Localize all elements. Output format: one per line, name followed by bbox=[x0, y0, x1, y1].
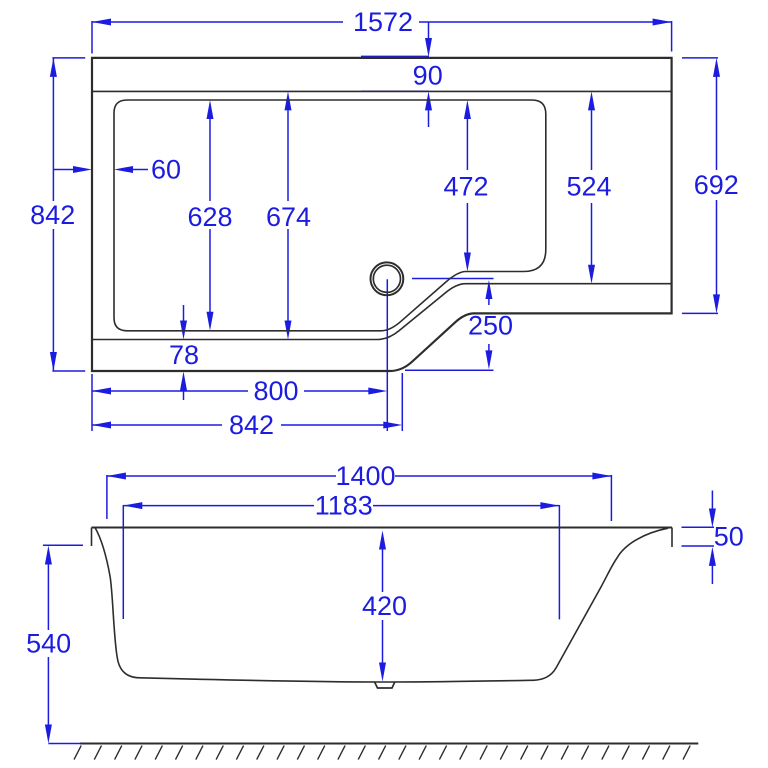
svg-text:692: 692 bbox=[694, 170, 739, 200]
svg-text:842: 842 bbox=[229, 410, 274, 440]
svg-text:90: 90 bbox=[413, 61, 443, 91]
ground hatching bbox=[74, 746, 690, 760]
dimension 90 (top rim width) bbox=[361, 22, 443, 127]
dimension 78 (bottom rim width) bbox=[169, 305, 199, 400]
plan view: outer edge of bath bbox=[92, 58, 672, 371]
svg-text:524: 524 bbox=[566, 172, 611, 202]
plan view: rim bottom / step line bbox=[92, 284, 672, 340]
dimension 628 (basin inner height) bbox=[187, 100, 232, 331]
drain waste circle bbox=[371, 262, 404, 295]
plan view: rim top line bbox=[92, 90, 672, 92]
dimension 842 (left overall height) bbox=[30, 58, 85, 371]
svg-text:472: 472 bbox=[443, 172, 488, 202]
dimension 674 (rim inner height) bbox=[266, 91, 311, 339]
side view: rim top line bbox=[92, 527, 673, 529]
svg-text:250: 250 bbox=[468, 311, 513, 341]
svg-text:420: 420 bbox=[362, 591, 407, 621]
dimension 1183 (side view inner width) bbox=[123, 491, 559, 620]
plan view: inner basin outline bbox=[114, 100, 546, 331]
dimension 472 (shower basin height) bbox=[443, 100, 488, 272]
side view: tub profile bbox=[95, 528, 668, 683]
dimension 50 (rim edge depth) bbox=[682, 491, 744, 585]
dimension 842 (bottom width to step) bbox=[92, 279, 402, 440]
dimension 1572 (overall width, top) bbox=[92, 7, 672, 54]
side view: left rim lip bbox=[91, 528, 93, 547]
dimension 524 (right rim inner height) bbox=[566, 91, 611, 283]
dimension 60 (left rim width) bbox=[53, 155, 181, 185]
dimension 1400 (side view top width) bbox=[107, 461, 612, 521]
svg-text:50: 50 bbox=[714, 521, 744, 551]
dimension 692 (right overall height) bbox=[682, 58, 739, 314]
540 bottom extension over ground line bbox=[48, 743, 81, 745]
side view: right rim lip bbox=[671, 528, 673, 548]
svg-text:1572: 1572 bbox=[353, 7, 413, 37]
svg-text:674: 674 bbox=[266, 202, 311, 232]
svg-text:800: 800 bbox=[253, 376, 298, 406]
svg-text:628: 628 bbox=[187, 202, 232, 232]
drain waste boss under tub bbox=[375, 682, 395, 688]
svg-text:1183: 1183 bbox=[315, 491, 373, 521]
ground line bbox=[80, 742, 698, 744]
svg-text:60: 60 bbox=[151, 155, 181, 185]
dimension 420 (inner depth) bbox=[362, 531, 407, 682]
dimension 800 (left edge to drain centre) bbox=[92, 376, 387, 406]
svg-text:842: 842 bbox=[30, 200, 75, 230]
svg-text:540: 540 bbox=[26, 629, 71, 659]
dimension 250 (drain centre to bottom edge) bbox=[405, 279, 513, 371]
svg-text:78: 78 bbox=[169, 340, 199, 370]
dimension 540 (overall height with feet) bbox=[26, 545, 83, 743]
svg-text:1400: 1400 bbox=[335, 461, 395, 491]
